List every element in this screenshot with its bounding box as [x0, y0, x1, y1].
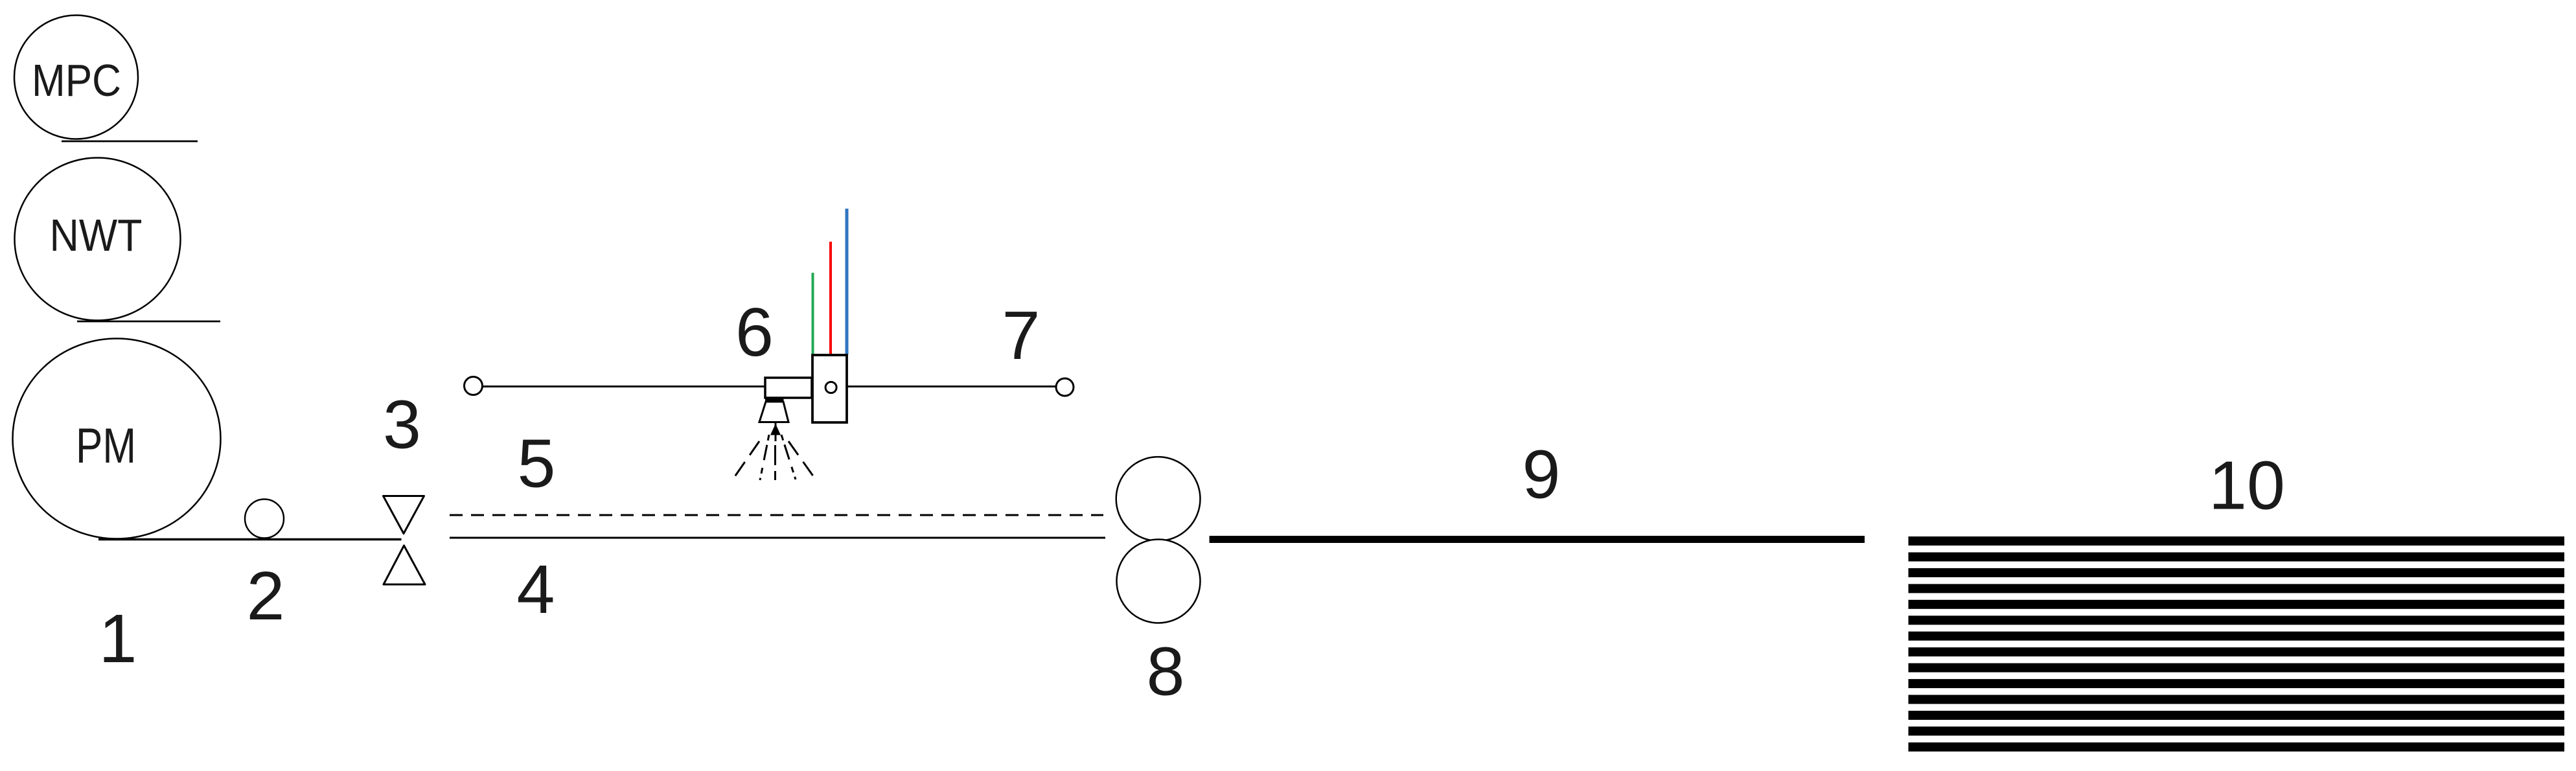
svg-text:1: 1	[99, 601, 137, 677]
svg-text:10: 10	[2209, 448, 2285, 524]
svg-text:MPC: MPC	[32, 55, 121, 106]
svg-text:7: 7	[1002, 297, 1041, 374]
svg-text:2: 2	[247, 558, 285, 634]
svg-text:3: 3	[383, 387, 421, 463]
svg-text:6: 6	[735, 294, 774, 371]
svg-text:4: 4	[517, 551, 555, 628]
svg-text:PM: PM	[76, 419, 136, 474]
svg-text:NWT: NWT	[50, 210, 143, 260]
svg-text:9: 9	[1523, 437, 1561, 513]
svg-text:8: 8	[1147, 634, 1185, 710]
svg-text:5: 5	[518, 426, 556, 502]
